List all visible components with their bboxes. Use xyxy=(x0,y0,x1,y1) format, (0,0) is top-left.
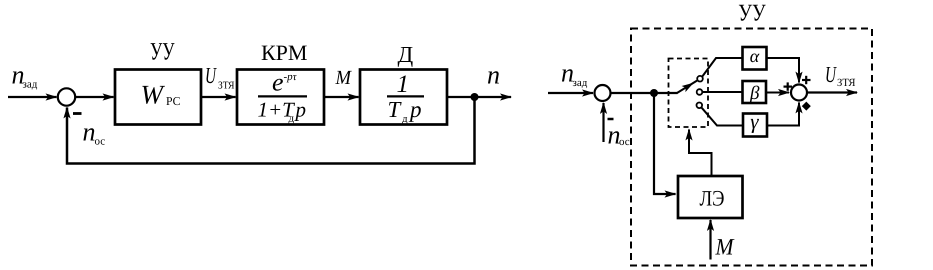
summing junction S1 xyxy=(58,88,75,105)
wire contact c to gamma block xyxy=(701,107,742,125)
wire J2 down and right into LE block xyxy=(654,93,676,194)
svg-text:M: M xyxy=(335,67,353,89)
summing junction S3 xyxy=(791,85,807,101)
dashed switch box xyxy=(669,59,709,128)
minus sign at S1 feedback input xyxy=(73,112,82,115)
svg-text:p: p xyxy=(294,98,307,122)
plus sign top of S3 xyxy=(802,76,811,84)
svg-text:УУ: УУ xyxy=(150,38,175,65)
wire feedback J1 down and left to S1 xyxy=(67,97,475,164)
svg-text:зад: зад xyxy=(573,77,588,89)
value e^-pt/(1+Tdp) inside U2 xyxy=(258,70,308,125)
switch contact c xyxy=(697,103,703,109)
wire S2 to switch pivot xyxy=(611,92,678,94)
summing junction S2 xyxy=(595,85,611,101)
svg-text:д: д xyxy=(289,113,295,125)
value 1/(Tdp) inside U3 xyxy=(387,71,424,125)
svg-text:W: W xyxy=(141,79,166,109)
wire alpha to summing junction S3 (top) xyxy=(767,58,800,83)
svg-text:ЛЭ: ЛЭ xyxy=(700,186,725,211)
node n_zad input label xyxy=(12,61,38,91)
plus sign left of S3 xyxy=(784,82,793,90)
svg-text:Д: Д xyxy=(398,42,414,67)
switch contact a xyxy=(697,76,703,82)
svg-text:РС: РС xyxy=(166,94,181,108)
svg-text:д: д xyxy=(402,113,408,125)
svg-text:α: α xyxy=(750,46,760,66)
switch arm with arrow xyxy=(677,80,698,93)
svg-text:зад: зад xyxy=(23,79,38,91)
block gamma xyxy=(743,110,767,137)
svg-text:ос: ос xyxy=(619,136,630,148)
svg-text:ЗТЯ: ЗТЯ xyxy=(837,77,856,89)
wire contact a to alpha block xyxy=(702,58,742,77)
svg-text:β: β xyxy=(749,83,760,104)
wire contact b to beta block xyxy=(702,91,742,93)
node n_os label (right) xyxy=(608,121,630,150)
svg-text:T: T xyxy=(388,97,403,122)
diamond mark at S3 bottom input xyxy=(802,102,811,111)
node U_ztya label (left) xyxy=(205,63,235,91)
wire KRM to D xyxy=(324,96,359,98)
svg-text:U: U xyxy=(205,63,217,88)
block U3 D xyxy=(360,70,447,125)
svg-text:e: e xyxy=(272,70,284,97)
wire n_os stub into S2 xyxy=(602,103,604,142)
wire S3 to output U_ztya xyxy=(807,91,857,93)
node n_zad input label (right) xyxy=(561,59,588,89)
junction dot J2 xyxy=(650,89,658,97)
dashed boundary box of UU xyxy=(631,29,872,266)
svg-text:n: n xyxy=(487,61,500,90)
svg-text:U: U xyxy=(825,62,837,87)
svg-text:ЗТЯ: ЗТЯ xyxy=(218,80,235,91)
wire input to summing junction S1 xyxy=(8,96,57,98)
wire S1 to block W_RS xyxy=(75,96,113,98)
svg-text:КРМ: КРМ xyxy=(261,40,307,65)
switch contact b xyxy=(697,89,703,95)
block U1 W_RS xyxy=(115,70,201,125)
svg-text:M: M xyxy=(715,235,735,261)
wire beta to S3 (left) xyxy=(766,92,789,94)
block LE xyxy=(678,176,743,218)
minus sign at S2 xyxy=(608,118,614,121)
svg-text:-pτ: -pτ xyxy=(284,71,298,83)
node n_os label (left) xyxy=(83,117,106,147)
wire U1 to KRM xyxy=(201,96,236,98)
junction dot J1 xyxy=(471,93,479,101)
wire M input into LE xyxy=(709,220,711,260)
wire LE up into switch box xyxy=(689,130,712,177)
wire D to output n xyxy=(447,96,511,98)
node U_ztya label (right) xyxy=(825,62,856,89)
svg-text:1: 1 xyxy=(397,71,410,98)
svg-text:p: p xyxy=(408,97,422,122)
wire gamma to S3 (bottom) xyxy=(767,103,799,126)
svg-text:γ: γ xyxy=(750,110,759,134)
block beta xyxy=(743,81,767,104)
block U2 KRM xyxy=(237,70,324,125)
block alpha xyxy=(743,46,767,70)
value W_PC inside U1 xyxy=(141,79,181,109)
svg-text:ос: ос xyxy=(95,136,106,148)
svg-text:УУ: УУ xyxy=(738,1,765,27)
wire input to summing junction S2 xyxy=(548,92,593,94)
